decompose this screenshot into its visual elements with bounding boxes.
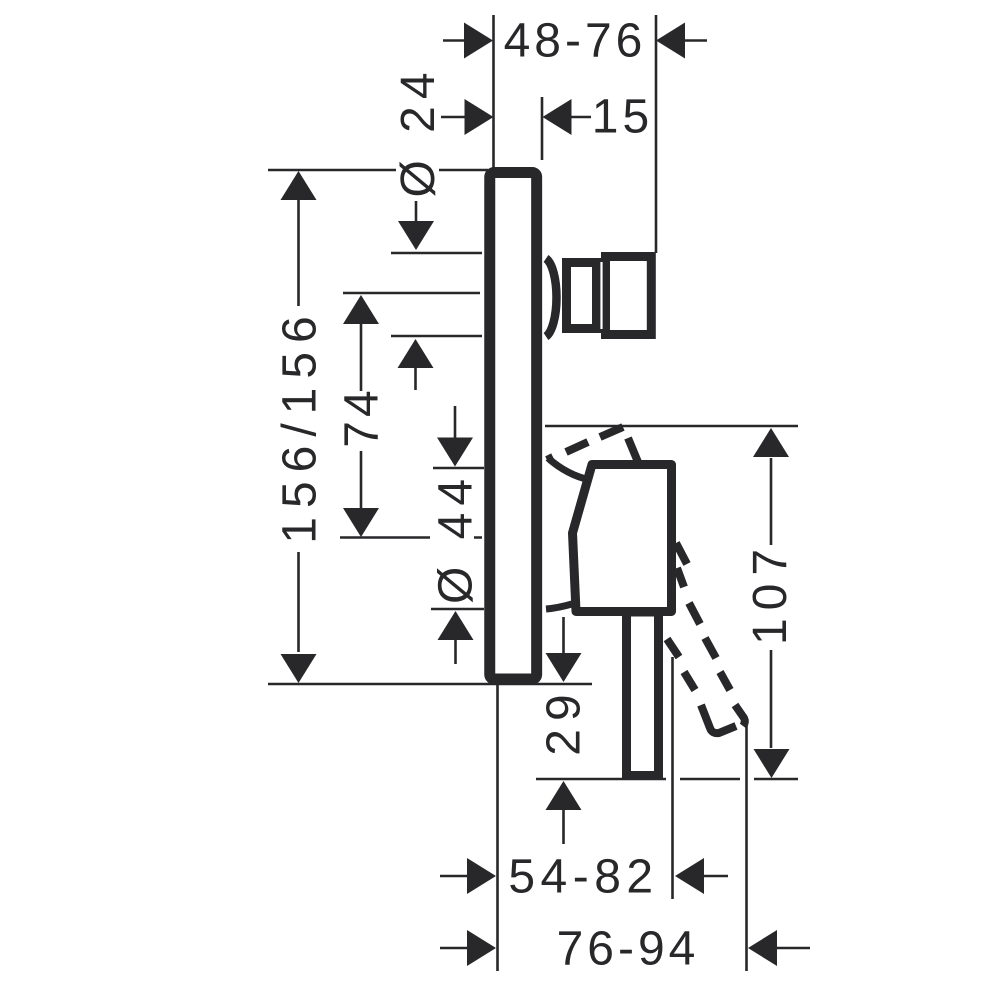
extension line stub right face x656	[655, 15, 658, 253]
arrowhead 29 top	[546, 653, 582, 682]
arrowhead 74 bottom	[343, 508, 379, 537]
arrowhead O44 bottom	[438, 611, 474, 640]
dimension 156/156 line	[297, 196, 300, 652]
arrowhead 107 bottom	[754, 749, 790, 778]
dimension 74 line	[360, 324, 363, 508]
dimension 107 line	[770, 458, 773, 748]
arrowhead 76-94 left	[467, 930, 496, 966]
arrowhead 156/156 bottom	[281, 654, 317, 683]
svg-text:54-82: 54-82	[508, 851, 658, 904]
svg-text:15: 15	[592, 91, 653, 144]
arrowhead 156/156 top	[281, 171, 317, 200]
svg-text:Ø 44: Ø 44	[430, 472, 483, 604]
arrowhead 54-82 left	[467, 858, 496, 894]
extension line lever-up tip y426	[545, 425, 798, 428]
arrowhead O44 top	[437, 438, 473, 467]
arrowhead 76-94 right	[748, 930, 777, 966]
arrowhead 15 right	[543, 99, 572, 135]
dimension O24 leader	[414, 201, 417, 390]
svg-text:107: 107	[744, 541, 797, 645]
svg-text:156/156: 156/156	[274, 307, 327, 544]
stub bulge at plate	[546, 259, 557, 337]
lever down position dashes	[667, 543, 745, 733]
arrowhead 48-76 left	[464, 23, 493, 59]
svg-text:48-76: 48-76	[504, 15, 647, 68]
svg-text:29: 29	[538, 686, 591, 755]
extension line wall-plane x497 bottom	[496, 684, 499, 971]
arrowhead O24 top	[398, 221, 434, 250]
extension line stub axis y293	[343, 292, 480, 295]
dimension 54-82 tails	[440, 875, 728, 878]
extension line lever-down bottom y779	[536, 778, 798, 781]
dimension O44 leader	[454, 406, 457, 664]
dimension 76-94 tails	[440, 947, 810, 950]
stub section divider	[600, 262, 602, 329]
sleeve bottom arc	[546, 604, 572, 609]
svg-text:74: 74	[336, 386, 389, 447]
sleeve top arc	[548, 458, 590, 480]
dimension 15 tails	[441, 116, 591, 119]
dimension 48-76 tails	[443, 39, 707, 42]
extension line plate front face x542	[541, 97, 544, 160]
svg-text:76-94: 76-94	[557, 923, 700, 976]
arrowhead 48-76 right	[656, 23, 685, 59]
extension line handle right face x672	[671, 657, 674, 899]
extension line sleeve top y468	[433, 467, 484, 470]
handle body	[573, 465, 672, 612]
stub large section	[606, 257, 652, 335]
arrowhead O24 bottom	[398, 339, 434, 368]
arrowhead 74 top	[343, 295, 379, 324]
dimension 29 leader	[562, 617, 565, 844]
extension line sleeve bottom y609	[431, 608, 484, 611]
arrowhead 107 top	[753, 428, 789, 457]
arrowhead 15 left	[465, 99, 494, 135]
svg-text:Ø 24: Ø 24	[392, 65, 445, 197]
extension line plate bottom y684	[268, 683, 592, 686]
extension line stub top y253	[391, 252, 482, 255]
arrowhead 29 bottom	[546, 781, 582, 810]
extension line stub bottom y336	[391, 335, 482, 338]
extension line plate top y170	[268, 169, 488, 172]
extension line lever tip x747	[745, 719, 748, 971]
arrowhead 54-82 right	[675, 858, 704, 894]
lever up position dashes	[547, 427, 638, 462]
escutcheon plate	[490, 173, 537, 680]
handle bar	[627, 612, 659, 776]
extension line wall-plane x494 top	[492, 15, 495, 169]
stub small section	[567, 263, 597, 329]
extension line handle axis y537	[340, 536, 482, 539]
